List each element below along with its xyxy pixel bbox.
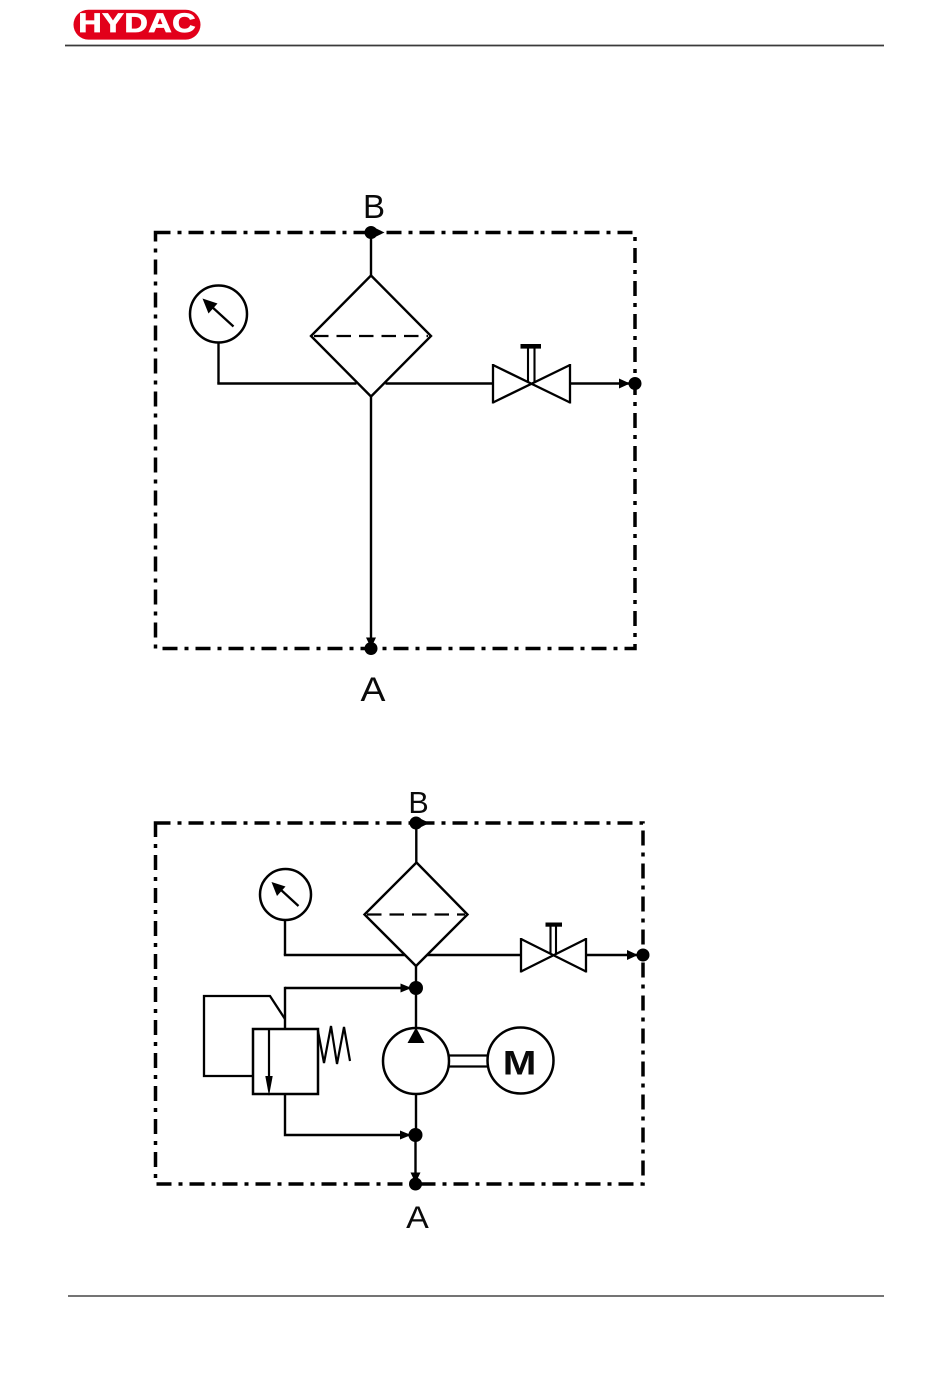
relief valve DB1 flow arrow (265, 1030, 272, 1096)
wire gauge to filter (circuit 2, left segment) (284, 954, 405, 956)
node junction J1 (409, 981, 423, 995)
wire filter bottom to port A (370, 397, 372, 649)
flow arrow at right port (circuit 2) (627, 950, 638, 960)
shut-off valve V2 (bowtie with T handle) (521, 923, 586, 973)
pump P1 (circle) (383, 1028, 449, 1094)
flow arrow at node A (circuit 2) (411, 1173, 421, 1184)
node A (circuit 2) (409, 1178, 422, 1191)
relief valve DB1 body (square) (253, 1029, 318, 1094)
HYDAC logo (74, 8, 201, 39)
flow arrow at junction J1 (401, 984, 412, 993)
wire J1 to pump (415, 988, 417, 1029)
wire valve V2 to right port (586, 954, 640, 956)
gauge PG2 stem (284, 920, 286, 955)
filter F2 element (dashed line) (367, 913, 465, 915)
flow arrow at node B (circuit 2) (418, 818, 430, 829)
svg-text:A: A (406, 1199, 429, 1235)
wire J2 to port A (414, 1135, 416, 1184)
filter F1 element (dashed line) (314, 335, 428, 337)
wire branch down to relief valve top (284, 987, 286, 1030)
drive shaft (double line) (448, 1056, 488, 1067)
wire port B to filter top (370, 233, 372, 277)
enclosure boundary 2 (dash-dot box) (156, 823, 644, 1184)
wire valve V1 to right port (570, 382, 632, 384)
filter F1 (diamond) (311, 276, 431, 397)
node A (circuit 1) (365, 642, 378, 655)
relief valve DB1 spring (318, 1026, 350, 1064)
node B (circuit 1) (365, 226, 378, 239)
svg-text:A: A (361, 671, 386, 709)
flow arrow at junction J2 (400, 1131, 411, 1140)
header rule (65, 45, 884, 47)
node junction J2 (409, 1128, 423, 1142)
wire filter to valve (right segment) (386, 382, 494, 384)
pump P1 outlet triangle (408, 1028, 425, 1044)
wire branch J1 to relief valve (horizontal) (285, 987, 416, 989)
enclosure boundary 1 (dash-dot box) (156, 233, 636, 649)
filter F2 (diamond) (365, 863, 468, 967)
wire port B to filter top (circuit 2) (415, 823, 417, 863)
wire filter to valve (circuit 2, right segment) (428, 954, 522, 956)
svg-text:B: B (363, 188, 385, 225)
footer rule (68, 1295, 884, 1297)
wire gauge to filter (left segment) (217, 382, 356, 384)
wire filter bottom to junction J1 (415, 966, 417, 988)
node right port (circuit 2) (637, 949, 650, 962)
flow arrow at node A (circuit 1) (366, 638, 376, 649)
svg-text:HYDAC: HYDAC (78, 8, 196, 38)
node B (circuit 2) (410, 817, 423, 830)
motor M1 (circle) (488, 1028, 554, 1094)
shut-off valve V1 (bowtie with T handle) (493, 344, 570, 404)
pressure gauge PG1 (190, 286, 247, 343)
flow arrow at right port (circuit 1) (619, 379, 630, 389)
pressure gauge PG2 (260, 869, 311, 920)
svg-text:M: M (503, 1043, 537, 1082)
gauge PG1 stem (217, 343, 219, 384)
node right port (circuit 1) (629, 377, 642, 390)
wire relief valve bottom (285, 1094, 411, 1135)
flow arrow at node B (circuit 1) (373, 227, 385, 238)
svg-text:B: B (408, 786, 428, 820)
relief valve DB1 pilot line loop (204, 996, 285, 1076)
wire pump to junction J2 (415, 1094, 417, 1135)
